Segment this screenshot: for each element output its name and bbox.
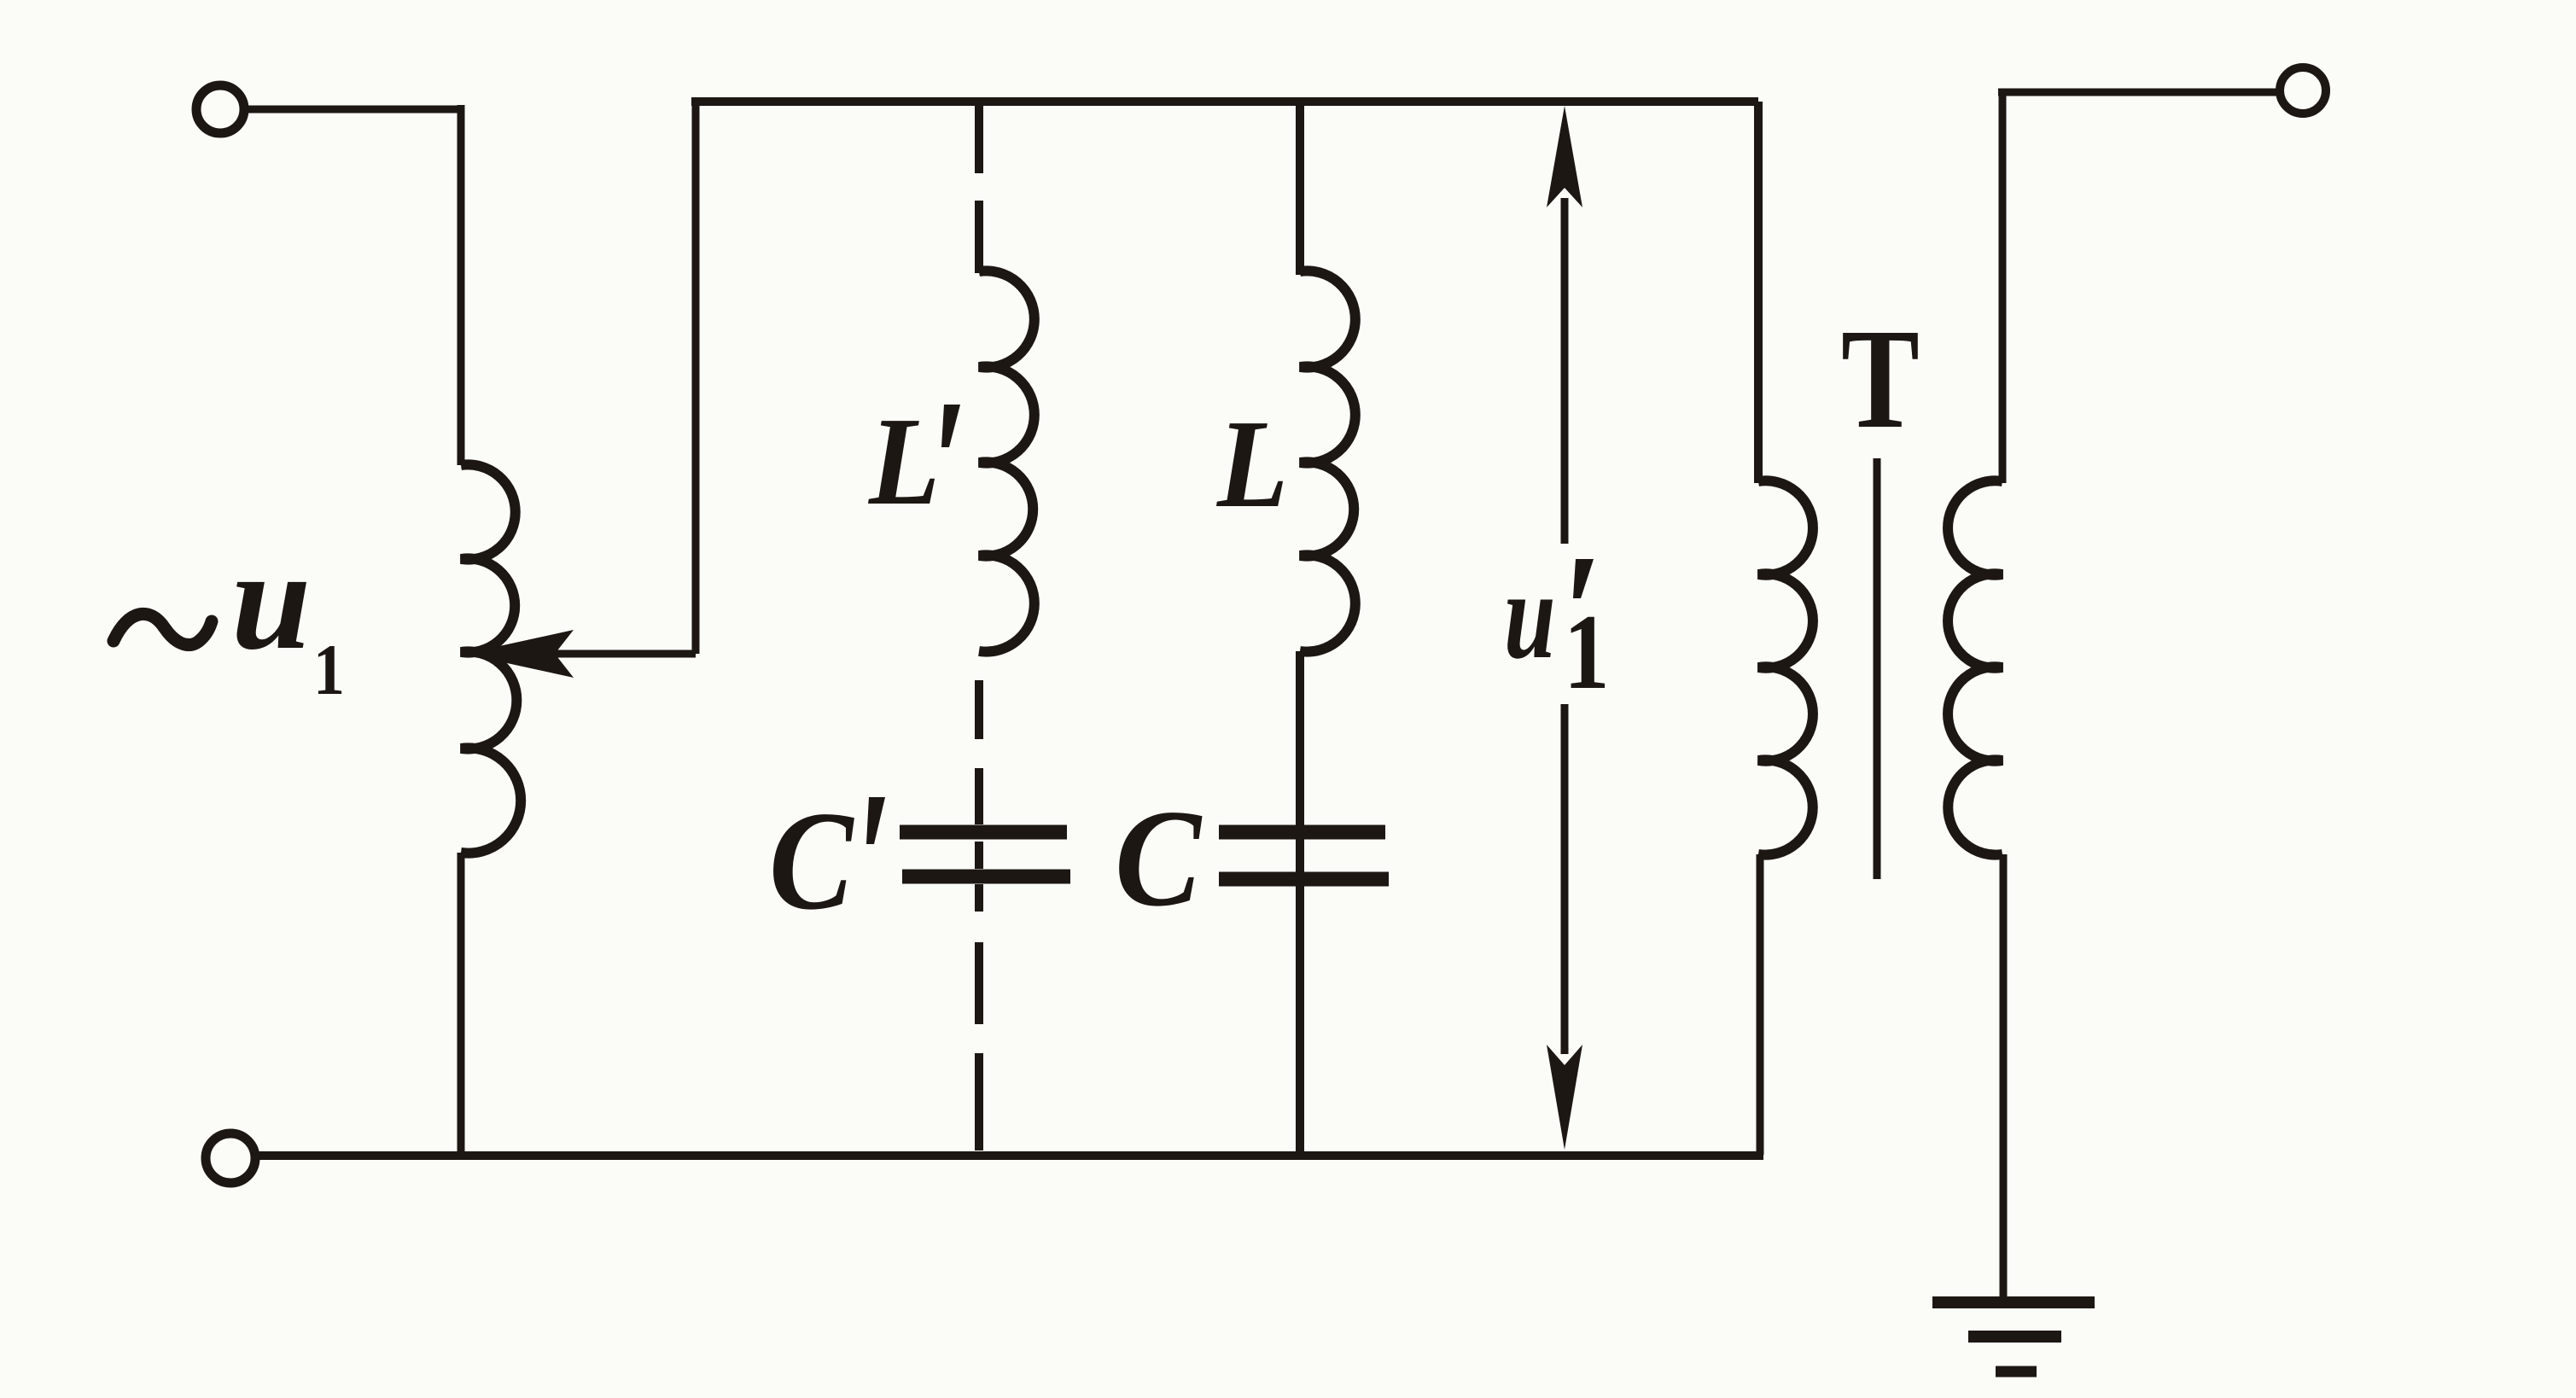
wire: primary bottom to bottom bus xyxy=(1757,854,1764,1155)
output terminal bottom-left xyxy=(206,1133,255,1183)
voltage arrow u1' shaft lower xyxy=(1561,704,1569,1054)
transformer T primary riser xyxy=(1754,102,1763,483)
capacitor C' top plate xyxy=(900,825,1067,840)
bottom bus wire xyxy=(259,1151,1763,1160)
label u1' xyxy=(1504,545,1610,712)
label ~u1 xyxy=(114,521,345,710)
output terminal top-right xyxy=(2280,67,2326,114)
svg-text:1: 1 xyxy=(313,630,345,710)
transformer core xyxy=(1874,458,1881,879)
dashed wire: C' to bottom bus xyxy=(975,884,983,1150)
wire: secondary top to terminal xyxy=(1998,89,2277,96)
ground xyxy=(1932,1296,2095,1308)
inductor L xyxy=(1300,271,1355,651)
inductor L' xyxy=(979,271,1034,651)
svg-text:u: u xyxy=(231,521,311,679)
wire: autotransformer bottom to bottom bus xyxy=(458,853,465,1155)
autotransformer winding ~u1 xyxy=(461,464,521,853)
transformer T primary winding xyxy=(1758,481,1813,854)
branch L' dashed riser xyxy=(975,102,983,273)
wire: L through capacitor C to bottom bus xyxy=(1296,651,1304,1155)
capacitor C top plate xyxy=(1219,825,1385,840)
svg-text:L: L xyxy=(867,391,940,531)
wire: top-left terminal to corner xyxy=(245,106,461,114)
svg-text:T: T xyxy=(1841,300,1920,458)
voltage arrow u1' bottom head xyxy=(1547,1045,1582,1150)
wire: tap riser from top bus xyxy=(692,102,700,654)
voltage arrow u1' shaft upper xyxy=(1561,198,1569,544)
capacitor C' bottom plate xyxy=(902,870,1070,884)
tap arrowhead xyxy=(464,630,574,678)
tap arrow wire xyxy=(553,650,696,658)
wire: corner down to autotransformer top xyxy=(458,105,465,465)
label L' xyxy=(867,391,960,531)
input terminal top-left xyxy=(196,85,244,133)
branch L riser wire xyxy=(1296,102,1304,275)
svg-text:L: L xyxy=(1215,393,1288,533)
dashed wire: L' to C' xyxy=(975,680,983,824)
label C' xyxy=(769,782,885,939)
top bus wire xyxy=(691,97,1758,106)
dashed wire between C' plates xyxy=(975,842,983,869)
svg-text:C: C xyxy=(769,782,855,939)
wire: secondary top riser xyxy=(1999,92,2007,483)
svg-text:1: 1 xyxy=(1564,593,1610,712)
svg-text:u: u xyxy=(1504,545,1556,684)
svg-text:C: C xyxy=(1115,782,1203,935)
capacitor C bottom plate xyxy=(1219,872,1389,887)
wire: secondary bottom to ground xyxy=(2000,854,2008,1301)
transformer secondary winding xyxy=(1948,481,2002,854)
voltage arrow u1' top head xyxy=(1547,106,1582,207)
